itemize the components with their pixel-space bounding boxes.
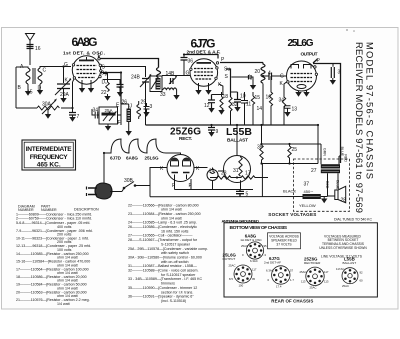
socket 25Z6G [306,267,324,285]
svg-text:6J7D: 6J7D [110,156,122,161]
svg-text:DIAL TUNED TO 540 KC: DIAL TUNED TO 540 KC [334,217,372,221]
screen wire to trimmer 24B [101,67,146,78]
resistor 16 below choke [262,84,264,126]
resistor 23 [210,176,237,179]
6J7G cathode leads + grounds [199,83,209,90]
25L6G grids [291,74,313,82]
junction dots [62,53,319,178]
svg-text:1/4 watt: 1/4 watt [57,302,70,306]
svg-text:24: 24 [209,169,215,175]
svg-text:RECT.: RECT. [179,136,192,142]
vertical from B+ line down [261,164,263,197]
svg-text:SOCKET VOLTAGES: SOCKET VOLTAGES [268,212,316,217]
svg-text:37: 37 [304,182,310,188]
svg-text:2nd DET. & A.F.: 2nd DET. & A.F. [187,50,221,56]
svg-text:17.4: 17.4 [276,284,282,288]
svg-text:6.3AC: 6.3AC [250,259,258,263]
K wire 25L6G [284,82,287,97]
ground under 30A [47,110,49,114]
resistor 15 [251,92,254,125]
svg-text:29A: 29A [60,92,70,98]
svg-text:ohm 1/4 watt: ohm 1/4 watt [161,216,182,220]
25Z6G plate leads down [175,175,192,190]
IF transformer primary coil [157,68,161,78]
svg-text:RED: RED [343,154,347,162]
antenna [26,34,35,66]
speaker dashed box [294,159,350,211]
capacitor 2 [103,80,120,85]
25Z6G plates [171,158,191,166]
svg-text:34: 34 [279,98,285,104]
ground under coil A [27,84,29,91]
svg-text:28: 28 [341,198,347,204]
K wire of 6J7G [212,84,223,95]
speaker cone 28 [335,190,338,200]
6J7G plate wire to choke 20 [220,62,263,64]
svg-text:26: 26 [122,100,128,106]
coil 29 [137,105,141,117]
25L6G plate wire to output transformer [313,59,341,163]
resistor 18 [220,97,223,111]
25L6G cathode lead + ground [295,92,301,97]
socket 6A8G [246,242,263,259]
socket 6J7G [272,266,290,284]
transformer secondary leads RED/BLUE [328,173,339,196]
svg-text:31: 31 [233,168,239,174]
svg-text:6J7G: 6J7G [191,37,216,51]
svg-text:100: 100 [239,283,244,287]
svg-text:6A8G: 6A8G [72,35,98,49]
svg-text:L55B: L55B [226,126,252,138]
svg-text:33: 33 [160,92,166,98]
svg-text:1: 1 [248,75,251,81]
svg-text:15: 15 [255,95,261,101]
svg-text:17: 17 [245,171,251,177]
coil 33 secondary bottom [163,88,177,90]
trimmer H capacitor [171,78,174,84]
svg-text:14: 14 [257,106,263,112]
svg-text:BALLAST: BALLAST [343,261,357,265]
switch 30B [110,191,122,193]
ground under osc box [107,124,109,126]
svg-text:25A: 25A [105,108,113,113]
tube 6J7G envelope [190,59,218,87]
svg-text:117: 117 [324,270,329,274]
svg-text:LINE VOLTAGE 117 VOLTS: LINE VOLTAGE 117 VOLTS [321,255,363,259]
power rail B [150,196,303,198]
svg-text:with on-off switch: with on-off switch [161,260,189,264]
svg-text:35———110590—{Condenser - trimm: 35———110590—{Condenser - trimmer 12 [128,286,197,290]
svg-text:G: G [186,71,190,77]
svg-text:32———110588—{Cone - voice coil: 32———110588—{Cone - voice coil assem. [128,269,198,273]
socket 25L6G [234,265,252,283]
25L6G beam plates [291,65,311,69]
svg-text:25AC: 25AC [241,244,248,248]
svg-text:YELLOW: YELLOW [299,203,316,208]
resistor 34 cathode [282,97,285,125]
svg-text:S-110517 speaker: S-110517 speaker [161,242,191,246]
B+ line y144 [262,143,322,145]
6A8G grids [77,66,97,78]
25Z6G cathode bars [172,172,190,174]
svg-text:15: 15 [27,90,33,96]
svg-text:9: 9 [216,129,219,135]
antenna transformer coil A [26,68,30,84]
svg-text:25AC: 25AC [229,264,236,268]
svg-text:27———110565—Coil - oscillator—: 27———110565—Coil - oscillator——— [128,234,193,238]
filament line into 25Z6G [166,153,181,155]
svg-text:37 VOLTS: 37 VOLTS [276,243,292,247]
svg-text:1st DET & OSC: 1st DET & OSC [240,238,262,242]
capacitor 34 osc [92,109,99,119]
svg-text:95: 95 [264,244,268,248]
tube 6A8G envelope [72,56,100,84]
svg-text:11: 11 [246,102,251,108]
svg-text:MODEL 97-56-S CHASSIS: MODEL 97-56-S CHASSIS [365,42,376,179]
main B- bus [146,124,319,126]
Og wire 6A8G to oscillator [101,73,121,105]
svg-text:DESCRIPTION: DESCRIPTION [74,208,99,212]
svg-text:92: 92 [360,271,364,275]
wire C bottom ground [39,84,41,90]
svg-text:15-16——110584—{Resistor - carb: 15-16——110584—{Resistor - carbon 470,000 [16,260,90,264]
scan specks [346,29,348,31]
svg-text:FREQUENCY: FREQUENCY [30,154,69,161]
svg-text:with safety switch: with safety switch [161,251,189,255]
svg-text:113: 113 [324,279,329,283]
filament string loops [104,139,166,153]
capacitor 5 [236,190,244,197]
svg-text:1.7: 1.7 [290,278,294,282]
coupling line choke to cap 4 [263,75,269,77]
screen wire Su/S [226,69,231,97]
svg-text:35: 35 [257,145,263,151]
grid line IF to 6J7G [162,75,190,77]
resistor 10 [234,92,241,107]
svg-text:29: 29 [141,100,147,106]
ballast element [239,157,242,176]
variable capacitor 29A [63,67,65,84]
capacitor 7 [72,82,74,112]
trimmer 24B [142,79,149,83]
IF secondary coil (dark) [156,78,161,90]
line y163.5 [262,163,319,165]
svg-text:UNLESS OTHERWISE SHOWN: UNLESS OTHERWISE SHOWN [319,246,367,250]
25Z6G K lead right to lamp 24 [194,167,208,169]
svg-text:1———60809——Condenser - mica 25: 1———60809——Condenser - mica 250 mmfd. [16,212,92,216]
svg-text:4: 4 [268,71,271,77]
svg-text:25: 25 [292,147,298,153]
svg-text:25AC: 25AC [342,284,349,288]
coil 16 [27,45,34,49]
svg-text:2: 2 [119,84,122,90]
svg-text:RECTIFIER: RECTIFIER [304,261,321,265]
svg-text:7: 7 [77,114,80,120]
power plug [95,183,112,199]
capacitor 13 [284,106,291,109]
svg-text:3: 3 [338,70,341,76]
svg-text:Og: Og [101,71,108,77]
svg-text:REAR OF CHASSIS: REAR OF CHASSIS [271,298,313,303]
svg-text:13: 13 [292,107,298,113]
L55B top lead to bus [236,125,238,156]
bus vertical right [317,125,319,164]
svg-text:INTERMEDIATE: INTERMEDIATE [26,146,73,153]
svg-text:OUTPUT: OUTPUT [223,257,236,261]
core lines [33,68,35,84]
wire left branch [16,67,28,108]
svg-text:34: 34 [93,108,99,114]
resistor 22 [103,74,108,83]
svg-text:G: G [64,62,68,68]
capacitor 11 [241,92,248,125]
svg-text:5: 5 [246,192,249,198]
IF trimmer arrow [151,80,157,90]
svg-text:25Z6G: 25Z6G [170,127,201,138]
wire connections osc [121,104,129,125]
svg-text:60: 60 [360,279,364,283]
svg-text:10: 10 [240,94,246,100]
resistor 30A volume control [37,106,59,110]
svg-text:14———110585—{Resistor - carbon: 14———110585—{Resistor - carbon 250,000 [16,252,89,256]
coil C secondary [38,68,42,84]
svg-text:32: 32 [232,102,238,108]
svg-text:95: 95 [252,277,256,281]
svg-text:26———110586—{Condenser - elect: 26———110586—{Condenser - electrolytic [128,225,197,229]
svg-text:117: 117 [252,268,257,272]
socket L55B [342,268,358,284]
wire antenna to coil A [29,50,31,65]
svg-text:F: F [118,120,121,126]
resistor 25 [288,144,291,164]
svg-text:14B: 14B [166,71,176,77]
svg-text:BLACK: BLACK [283,189,296,194]
svg-text:Su: Su [224,67,230,73]
svg-text:20: 20 [255,69,261,75]
svg-text:113: 113 [301,279,306,283]
svg-text:BLUE: BLUE [335,180,339,190]
svg-text:D₁: D₁ [102,80,108,86]
svg-text:21———110576—{Resistor - carbon: 21———110576—{Resistor - carbon 2.2 meg. [16,298,90,302]
wire K of 6A8G down to cap 7 [73,79,75,82]
svg-text:5-6-8——96314—{Condenser - pape: 5-6-8——96314—{Condenser - paper .05 mfd. [16,221,90,225]
svg-text:(incl. S-110518): (incl. S-110518) [161,299,186,303]
ballast tube L55B envelope [224,156,251,183]
svg-text:465 KC.: 465 KC. [37,162,61,169]
svg-text:OUTPUT: OUTPUT [301,52,318,58]
svg-text:25L6G: 25L6G [288,38,314,49]
capacitor 4 [269,73,272,81]
P wire 6A8G to IF transformer [99,56,159,68]
plug lead up to filament line [103,153,105,184]
svg-text:G: G [280,74,284,80]
svg-text:22———110566—{Resistor - carbon: 22———110566—{Resistor - carbon 80,000 [128,203,199,207]
IF frequency box [22,140,76,170]
svg-text:25AC: 25AC [310,286,317,290]
svg-text:30A: 30A [42,102,52,108]
svg-text:27: 27 [311,168,317,174]
svg-text:2nd DET-AF: 2nd DET-AF [264,261,281,265]
capacitor 9 [211,125,213,127]
svg-text:22: 22 [101,90,107,96]
svg-text:36: 36 [188,59,194,65]
svg-text:117AC: 117AC [336,267,344,271]
svg-text:7-9———96321—{Condenser - paper: 7-9———96321—{Condenser - paper .006 mfd. [16,229,93,233]
oscillator grid resistor 22 region: cap 12 [208,95,215,109]
svg-text:6A8G: 6A8G [126,156,138,161]
speaker field coil 450 ohm [303,194,321,199]
svg-text:10-11——96323—{Condenser - pape: 10-11——96323—{Condenser - paper .1 mfd. [16,237,89,241]
capacitor 3 osc [139,107,150,120]
ground under J coil [126,131,132,136]
pilot lamp 24 [207,170,218,181]
tube 25L6G envelope [287,61,317,91]
svg-text:BALLAST: BALLAST [227,138,248,144]
svg-text:30B: 30B [124,178,134,184]
svg-text:23: 23 [221,171,227,177]
tube pin terminals [72,58,317,84]
power rail A [175,189,254,191]
6J7G plate [197,62,212,64]
capacitor 36 [183,55,185,58]
ground under 29A [60,98,66,103]
svg-text:16: 16 [35,46,41,52]
svg-text:57: 57 [290,269,294,273]
svg-text:RED: RED [325,181,329,189]
svg-text:36———110591—{Speaker - dynamic: 36———110591—{Speaker - dynamic 6" [128,295,194,299]
svg-text:18: 18 [223,94,229,100]
oscillator coil box 25A [99,107,118,124]
resistor 35 [261,125,263,145]
svg-text:24B: 24B [131,75,141,81]
6A8G plate [79,60,94,62]
bottom view of chassis box [224,223,377,297]
svg-text:RECEIVER MODELS 97-561 to 97-5: RECEIVER MODELS 97-561 to 97-569 [354,42,365,213]
IF transformer can/box [150,76,162,92]
svg-text:8.5: 8.5 [229,277,233,281]
svg-text:GRN: GRN [322,148,326,156]
capacitor 3 [332,64,334,67]
svg-text:C: C [43,68,47,74]
svg-text:2———60759——Condenser - mica 11: 2———60759——Condenser - mica 110 mmfd. [16,217,92,221]
svg-text:BOTTOM VIEW OF CHASSIS: BOTTOM VIEW OF CHASSIS [230,225,288,231]
svg-text:33 - 34B—110589—{Transformer -: 33 - 34B—110589—{Transformer - I.F. 465 … [128,277,203,281]
svg-text:12-13——96318—{Condenser - pape: 12-13——96318—{Condenser - paper .25 mfd. [16,244,91,248]
svg-text:25L6G: 25L6G [145,156,159,161]
svg-text:25AC: 25AC [300,270,307,274]
svg-text:16: 16 [266,95,272,101]
25L6G cathode oval [297,85,306,89]
wire C top to grid line [40,67,71,69]
svg-text:3: 3 [150,104,153,110]
voltage across speaker field box [268,233,301,249]
oscillator coil J/26 [127,109,132,123]
svg-text:12: 12 [204,103,210,109]
svg-text:17———110564—{Resistor - carbon: 17———110564—{Resistor - carbon 100,000 [16,267,89,271]
choke 20 [261,63,265,84]
tube 25Z6G envelope [167,155,194,182]
svg-text:450∼: 450∼ [304,189,314,194]
ground under 33 [173,95,179,100]
svg-text:6.3AC: 6.3AC [266,269,274,273]
svg-text:-3: -3 [264,253,267,257]
6J7G grids [194,69,214,80]
output transformer 27 [321,164,340,168]
resistor 17 [237,176,268,179]
svg-text:D: D [38,86,42,92]
capacitor 1 [231,76,248,78]
6A8G cathode leads and grounds [82,80,91,88]
